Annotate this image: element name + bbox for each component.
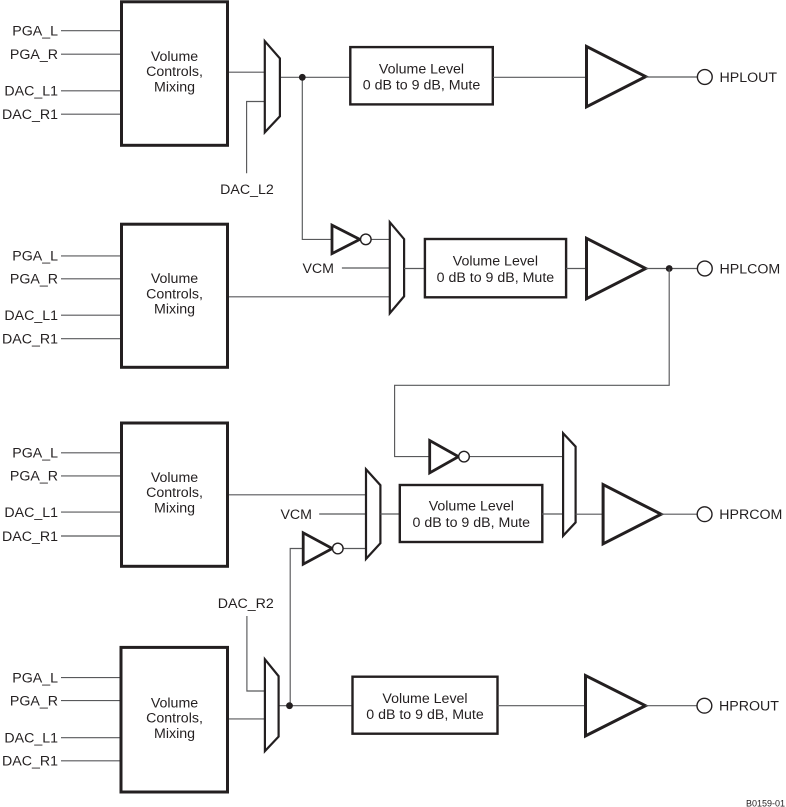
- mux M4: [563, 433, 576, 536]
- svg-text:DAC_R1: DAC_R1: [2, 754, 58, 770]
- mux M2: [390, 222, 404, 313]
- svg-text:DAC_R2: DAC_R2: [218, 596, 274, 612]
- svg-text:PGA_L: PGA_L: [12, 249, 58, 265]
- wire DAC_R1 input row1: [61, 113, 122, 115]
- svg-text:0 dB to 9 dB, Mute: 0 dB to 9 dB, Mute: [437, 270, 555, 286]
- wire mux3b output to amp A3: [576, 513, 606, 515]
- amplifier A3: [603, 485, 661, 544]
- svg-text:0 dB to 9 dB, Mute: 0 dB to 9 dB, Mute: [363, 78, 481, 94]
- svg-text:Mixing: Mixing: [154, 302, 195, 318]
- wire mixer2 output to mux2 bottom input: [227, 296, 391, 298]
- svg-text:DAC_R1: DAC_R1: [2, 529, 58, 545]
- volume level box 3: [400, 485, 543, 542]
- amplifier A1: [587, 46, 646, 106]
- volume level box 2: [425, 239, 566, 297]
- wire VCM to mux3a: [319, 513, 367, 515]
- inverter U3: [303, 533, 332, 564]
- volume controls box 4: [121, 647, 228, 792]
- inverter U1 bubble: [361, 234, 372, 245]
- wire DAC_R2 net vertical to inverter U3 input: [290, 549, 304, 706]
- junction dot node 4: [286, 702, 293, 709]
- wire mux4 output to volume level 4: [279, 705, 353, 707]
- wire amp A1 to HPLOUT: [646, 76, 698, 78]
- volume level box 1: [350, 47, 493, 104]
- wire volume level 4 to amp A4: [498, 705, 590, 707]
- mux M5: [265, 659, 279, 751]
- wire amp A2 to HPLCOM: [646, 268, 698, 270]
- wire PGA_R input row1: [61, 53, 122, 55]
- mux M3: [366, 469, 380, 559]
- wire mixer4 output to mux4: [227, 718, 267, 720]
- svg-text:Controls,: Controls,: [146, 485, 203, 501]
- svg-text:Volume Level: Volume Level: [382, 691, 467, 707]
- svg-text:Volume Level: Volume Level: [429, 499, 514, 515]
- wire PGA_L input row3: [61, 452, 122, 454]
- svg-text:VCM: VCM: [302, 261, 334, 277]
- wire volume level 3 to mux3b: [542, 513, 564, 515]
- wire amp A4 to HPROUT: [646, 705, 698, 707]
- inverter U1: [332, 225, 360, 253]
- wire volume level 1 to amp A1: [493, 76, 590, 78]
- wire PGA_R input row2: [61, 278, 122, 280]
- wire mux3a output to volume level 3: [380, 513, 400, 515]
- wire DAC_L1 input row4: [61, 737, 122, 739]
- svg-text:DAC_L1: DAC_L1: [4, 308, 58, 324]
- output pin circle HPROUT: [697, 698, 712, 713]
- junction dot node 2: [666, 265, 673, 272]
- svg-text:Volume Level: Volume Level: [379, 61, 464, 77]
- wire PGA_L input row1: [61, 30, 122, 32]
- svg-text:VCM: VCM: [280, 507, 312, 523]
- wire inverter U1 to mux2: [371, 238, 391, 240]
- svg-text:PGA_R: PGA_R: [10, 693, 58, 709]
- wire DAC_R1 input row3: [61, 535, 122, 537]
- svg-text:Volume: Volume: [151, 695, 198, 711]
- wire DAC_R2 to mux4: [247, 616, 267, 691]
- svg-text:DAC_L1: DAC_L1: [4, 84, 58, 100]
- wire mux1 output to volume level 1: [280, 76, 350, 78]
- amplifier A4: [586, 676, 646, 736]
- wire amp A3 to HPRCOM: [661, 513, 697, 515]
- svg-text:PGA_L: PGA_L: [12, 24, 58, 40]
- svg-text:B0159-01: B0159-01: [746, 799, 785, 807]
- wire DAC_L1 input row2: [61, 314, 122, 316]
- wire PGA_R input row3: [61, 475, 122, 477]
- inverter U3 bubble: [333, 543, 344, 554]
- volume level box 4: [353, 677, 498, 734]
- svg-text:DAC_L2: DAC_L2: [220, 182, 274, 198]
- svg-text:Mixing: Mixing: [154, 79, 195, 95]
- svg-text:Controls,: Controls,: [146, 64, 203, 80]
- wire VCM to mux2: [342, 267, 391, 269]
- wire DAC_R1 input row4: [61, 760, 122, 762]
- svg-text:DAC_R1: DAC_R1: [2, 332, 58, 348]
- svg-text:Mixing: Mixing: [154, 500, 195, 516]
- wire PGA_L input row2: [61, 255, 122, 257]
- wire mux2 output to volume level 2: [404, 268, 425, 270]
- junction dot node 1: [299, 74, 306, 81]
- svg-text:PGA_R: PGA_R: [10, 272, 58, 288]
- wire mixer3 output to mux3a top input: [227, 494, 367, 496]
- svg-text:PGA_R: PGA_R: [10, 469, 58, 485]
- svg-text:DAC_L1: DAC_L1: [4, 731, 58, 747]
- wire DAC_L1 input row1: [61, 90, 122, 92]
- svg-text:PGA_L: PGA_L: [12, 446, 58, 462]
- wire DAC_R1 input row2: [61, 338, 122, 340]
- svg-text:HPLOUT: HPLOUT: [720, 70, 778, 86]
- wire HPLCOM junction to inverter U2 (row3): [395, 269, 670, 457]
- wire inverter U2 bubble to mux3b: [469, 456, 564, 458]
- inverter U2 bubble: [459, 451, 470, 462]
- wire DAC_L2 to mux1: [247, 102, 267, 174]
- output pin circle HPRCOM: [697, 507, 712, 522]
- svg-text:DAC_R1: DAC_R1: [2, 107, 58, 123]
- output pin circle HPLOUT: [697, 70, 712, 85]
- mux M1: [265, 41, 280, 132]
- svg-text:HPLCOM: HPLCOM: [720, 261, 781, 277]
- wire volume level 2 to amp A2: [566, 268, 590, 270]
- svg-text:DAC_L1: DAC_L1: [4, 505, 58, 521]
- volume controls box 1: [122, 2, 228, 146]
- wire junction1 down to inverter U1: [302, 77, 333, 239]
- svg-text:Volume Level: Volume Level: [453, 254, 538, 270]
- amplifier A2: [587, 238, 646, 298]
- svg-text:Controls,: Controls,: [146, 711, 203, 727]
- svg-text:Volume: Volume: [151, 470, 198, 486]
- wire mixer1 output to mux1: [227, 71, 267, 73]
- svg-text:Volume: Volume: [151, 49, 198, 65]
- inverter U2: [430, 441, 459, 473]
- output pin circle HPLCOM: [697, 261, 712, 276]
- wire PGA_R input row4: [61, 700, 122, 702]
- wire inverter U3 bubble to mux3a: [343, 548, 367, 550]
- svg-text:Mixing: Mixing: [154, 726, 195, 742]
- svg-text:0 dB to 9 dB, Mute: 0 dB to 9 dB, Mute: [413, 515, 531, 531]
- svg-text:Controls,: Controls,: [146, 286, 203, 302]
- wire PGA_L input row4: [61, 677, 122, 679]
- svg-text:PGA_L: PGA_L: [12, 670, 58, 686]
- volume controls box 3: [122, 423, 228, 566]
- svg-text:HPRCOM: HPRCOM: [719, 507, 782, 523]
- volume controls box 2: [122, 224, 228, 367]
- wire DAC_L1 input row3: [61, 511, 122, 513]
- svg-text:HPROUT: HPROUT: [719, 699, 779, 715]
- svg-text:Volume: Volume: [151, 271, 198, 287]
- svg-text:0 dB to 9 dB, Mute: 0 dB to 9 dB, Mute: [366, 707, 484, 723]
- svg-text:PGA_R: PGA_R: [10, 47, 58, 63]
